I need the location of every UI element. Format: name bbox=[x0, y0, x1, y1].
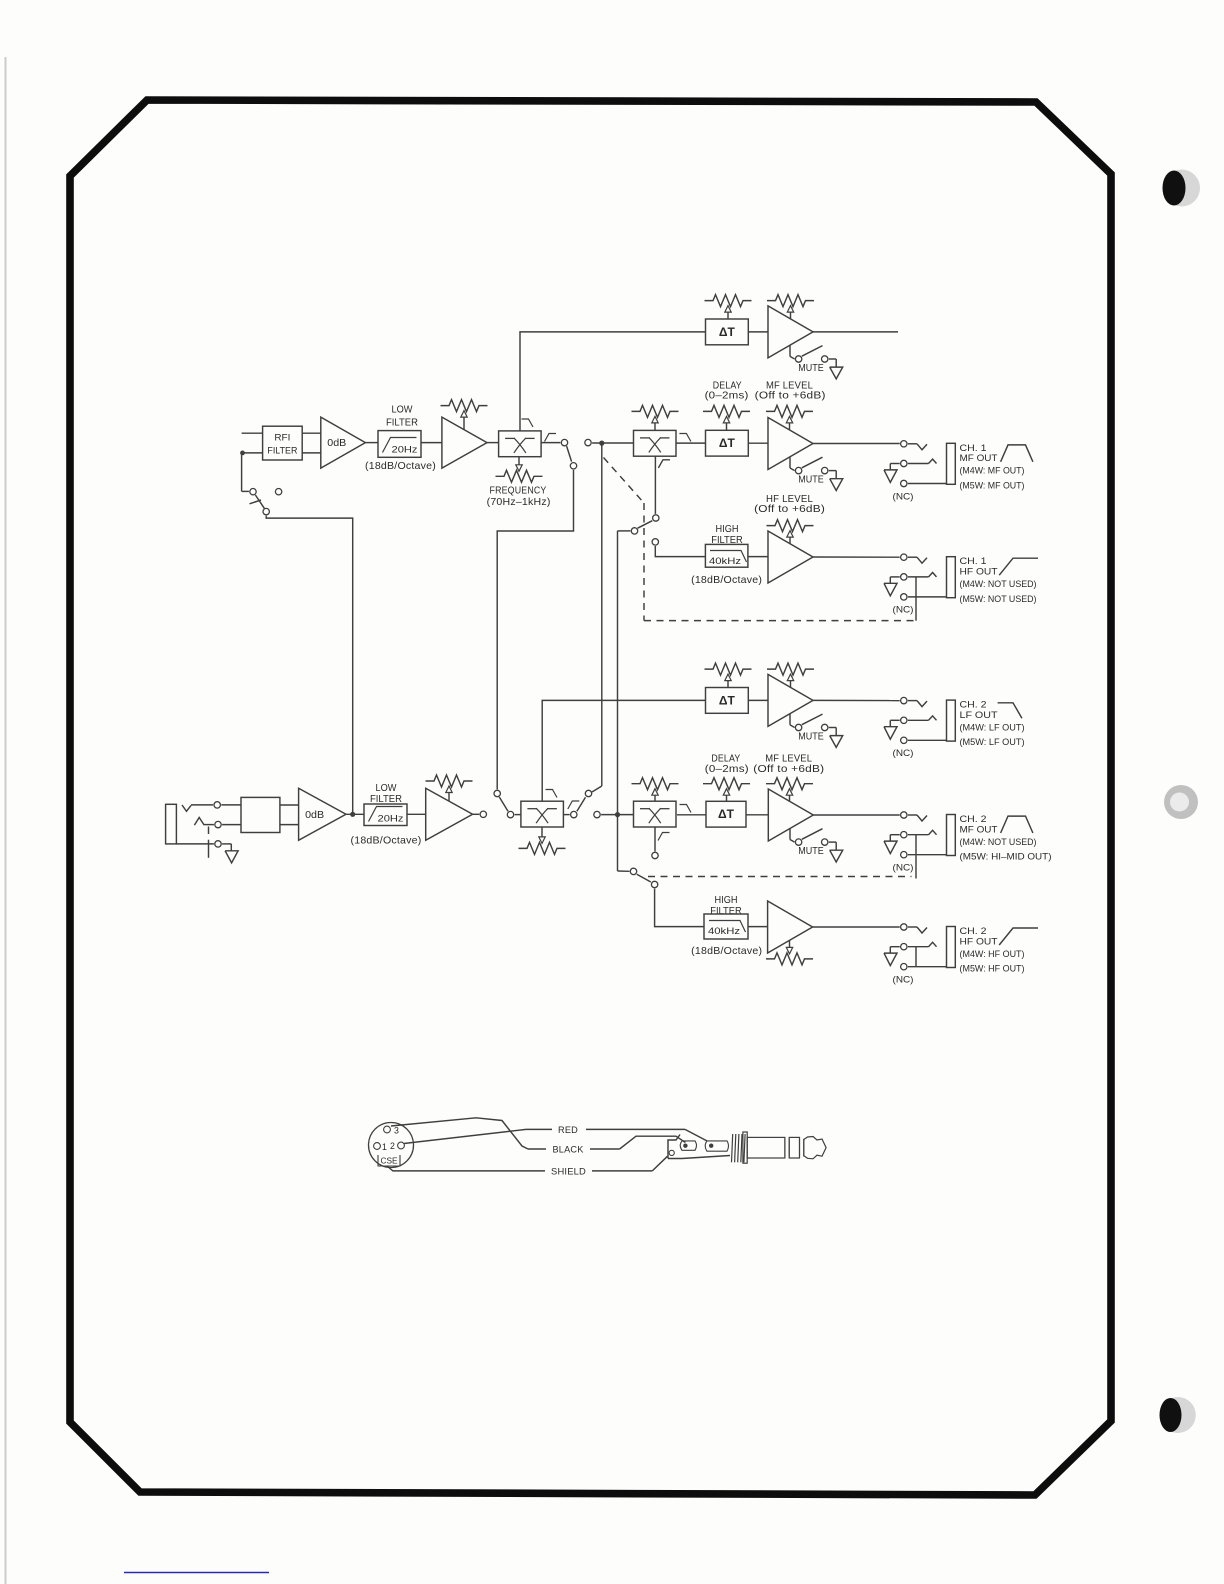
svg-text:CH. 2: CH. 2 bbox=[960, 700, 987, 711]
wire ch1 crossover LF out up to delay row bbox=[520, 332, 706, 431]
svg-text:0dB: 0dB bbox=[305, 810, 324, 821]
block RFI filter ch2 bbox=[241, 797, 280, 832]
wire ch1 aux input to ch2 junction bbox=[266, 516, 353, 815]
svg-text:(70Hz–1kHz): (70Hz–1kHz) bbox=[487, 497, 551, 508]
svg-text:(M5W: HI–MID OUT): (M5W: HI–MID OUT) bbox=[960, 852, 1052, 863]
wire ch1 HF output bbox=[813, 556, 900, 558]
pot ch2 LF delay bbox=[705, 663, 752, 687]
svg-text:RED: RED bbox=[558, 1125, 578, 1136]
pot ch1 MF crossover trim bbox=[632, 405, 679, 430]
switch MUTE ch2 MF bbox=[790, 828, 843, 862]
svg-text:(0–2ms): (0–2ms) bbox=[705, 391, 749, 402]
wire M5W link ch1 to ch2 input bbox=[497, 470, 573, 790]
TRS strain relief coil bbox=[732, 1134, 746, 1162]
svg-text:0dB: 0dB bbox=[327, 438, 346, 449]
svg-text:BLACK: BLACK bbox=[553, 1144, 584, 1155]
label HIGH FILTER ch1 bbox=[711, 524, 743, 546]
TRS flange bbox=[743, 1132, 747, 1163]
block HIGH FILTER 40kHz ch2 bbox=[704, 914, 748, 939]
svg-text:LF OUT: LF OUT bbox=[960, 710, 998, 721]
switch MUTE ch1 LF bbox=[790, 345, 843, 379]
wire ch2 LF out up to delay row bbox=[542, 700, 705, 801]
wire ch2 HF output bbox=[813, 926, 900, 928]
svg-text:(18dB/Octave): (18dB/Octave) bbox=[365, 461, 436, 472]
slope mark lowpass ch1 crossover bbox=[522, 419, 534, 427]
XLR case terminal bbox=[378, 1155, 400, 1166]
svg-text:40kHz: 40kHz bbox=[708, 926, 740, 937]
block HIGH FILTER 40kHz ch1 bbox=[705, 544, 748, 567]
svg-text:LOW: LOW bbox=[392, 405, 414, 416]
svg-text:(NC): (NC) bbox=[893, 975, 914, 986]
connector CH.2 LF OUT bbox=[884, 697, 1025, 759]
TRS barrel bbox=[747, 1137, 785, 1158]
wire RFI to 0dB amp ch1 bbox=[302, 433, 321, 453]
crossover filter ch1 (variable) bbox=[499, 431, 541, 457]
connector CH.2 MF OUT bbox=[884, 812, 1052, 879]
svg-text:CH. 2: CH. 2 bbox=[960, 926, 987, 937]
svg-text:(NC): (NC) bbox=[893, 748, 914, 759]
XLR pin 3 bbox=[384, 1126, 399, 1136]
svg-text:20Hz: 20Hz bbox=[392, 445, 418, 456]
crossover filter ch2 MF bbox=[634, 801, 677, 827]
pot ch2 HF level bbox=[766, 940, 813, 965]
op-amp ch2 input buffer bbox=[426, 788, 473, 840]
TRS tip bbox=[804, 1137, 826, 1159]
svg-text:RFI: RFI bbox=[274, 433, 290, 443]
wire dashed M4W boundary ch1 bbox=[604, 458, 917, 621]
svg-text:MUTE: MUTE bbox=[798, 731, 824, 742]
svg-text:ΔT: ΔT bbox=[719, 438, 735, 450]
wire ch2 MF box HF out down bbox=[654, 827, 656, 851]
XLR pin 1 bbox=[374, 1142, 387, 1152]
pot ch1 MF delay bbox=[703, 405, 750, 430]
switch ch2 crossover input bbox=[480, 790, 514, 818]
border frame octagon bbox=[70, 100, 1111, 1495]
wire ch1 LF output bbox=[813, 331, 898, 333]
svg-text:ΔT: ΔT bbox=[719, 695, 735, 707]
wire switch to crossover ch2 bbox=[515, 814, 521, 816]
connector TRS plug body bbox=[668, 1135, 730, 1159]
wire delay to amp ch1 LF bbox=[748, 331, 768, 333]
wire amp out junction ch2 bbox=[346, 812, 364, 817]
connector CH.1 HF OUT bbox=[884, 554, 1038, 621]
switch ch1 input select bbox=[242, 453, 282, 515]
connector CH.1 MF OUT bbox=[884, 441, 1033, 503]
wire delay to amp ch1 MF bbox=[748, 442, 768, 444]
connector XLR shell bbox=[369, 1123, 414, 1168]
TRS tip groove bbox=[800, 1139, 804, 1157]
pot ch2 LF level bbox=[767, 663, 814, 688]
svg-text:ΔT: ΔT bbox=[718, 809, 734, 821]
svg-text:(18dB/Octave): (18dB/Octave) bbox=[691, 575, 762, 586]
wire red conductor bbox=[404, 1129, 707, 1143]
wire ch2 MF box to delay bbox=[617, 814, 706, 816]
svg-text:40kHz: 40kHz bbox=[709, 556, 741, 567]
slope mark highpass ch1 crossover bbox=[545, 434, 557, 442]
wire ch2 HF to high filter bbox=[655, 889, 704, 927]
svg-text:(M5W: MF OUT): (M5W: MF OUT) bbox=[960, 480, 1025, 491]
wire ch1 MF box to delay bbox=[676, 442, 706, 444]
svg-text:CH. 1: CH. 1 bbox=[960, 443, 987, 454]
block LOW FILTER 20Hz ch2 bbox=[364, 804, 407, 826]
svg-text:MF OUT: MF OUT bbox=[960, 453, 998, 464]
switch MUTE ch1 MF bbox=[790, 457, 843, 491]
svg-text:(Off to +6dB): (Off to +6dB) bbox=[753, 764, 824, 775]
wire ch1 mid line with junction bbox=[592, 441, 633, 446]
svg-text:CH. 1: CH. 1 bbox=[960, 556, 987, 567]
pot ch1 input amp bbox=[441, 400, 488, 430]
connector ch2 input jack bbox=[166, 802, 241, 858]
svg-text:(M5W: HF OUT): (M5W: HF OUT) bbox=[960, 964, 1025, 975]
op-amp ch1 HF bbox=[768, 531, 813, 583]
svg-text:HF OUT: HF OUT bbox=[960, 567, 998, 578]
slope mark highpass ch1 MF box bbox=[658, 460, 670, 468]
svg-text:LOW: LOW bbox=[376, 783, 398, 794]
delay block ch1 LF bbox=[706, 319, 749, 345]
svg-text:1: 1 bbox=[382, 1142, 387, 1152]
svg-text:(18dB/Octave): (18dB/Octave) bbox=[691, 946, 762, 957]
svg-text:HF OUT: HF OUT bbox=[960, 936, 998, 947]
wire high filter to amp ch1 HF bbox=[748, 556, 768, 558]
svg-text:FILTER: FILTER bbox=[267, 446, 297, 456]
pot FREQUENCY ch1 bbox=[496, 457, 543, 483]
pot ch2 crossover frequency bbox=[519, 827, 566, 854]
wire ch1 MF output bbox=[813, 443, 900, 445]
svg-text:(18dB/Octave): (18dB/Octave) bbox=[351, 835, 422, 846]
svg-text:HIGH: HIGH bbox=[716, 524, 739, 535]
pot ch2 MF delay bbox=[703, 778, 750, 802]
svg-text:SHIELD: SHIELD bbox=[551, 1166, 586, 1177]
crossover filter ch1 MF bbox=[634, 430, 677, 456]
wire black conductor bbox=[391, 1118, 685, 1149]
svg-text:CH. 2: CH. 2 bbox=[960, 814, 987, 825]
wire 0dB amp to low filter ch1 bbox=[365, 442, 378, 444]
svg-text:MUTE: MUTE bbox=[798, 475, 824, 486]
wire crossover out ch1 bbox=[541, 442, 560, 444]
wire amp to crossover ch1 bbox=[487, 442, 499, 444]
op-amp ch2 MF bbox=[768, 789, 813, 841]
svg-text:(M4W: NOT USED): (M4W: NOT USED) bbox=[960, 837, 1037, 848]
XLR pin 2 bbox=[390, 1141, 404, 1151]
svg-text:ΔT: ΔT bbox=[719, 327, 735, 339]
wire ch2 MF output bbox=[813, 814, 899, 816]
TRS ring groove bbox=[785, 1139, 789, 1157]
ground ch2 input bbox=[225, 851, 238, 863]
wire low filter to amp ch2 bbox=[407, 813, 426, 815]
pot ch1 LF delay bbox=[705, 295, 752, 319]
op-amp 0dB ch1 bbox=[321, 417, 366, 468]
wire delay to amp ch2 LF bbox=[748, 699, 768, 701]
svg-text:(M4W: MF OUT): (M4W: MF OUT) bbox=[960, 466, 1025, 477]
footer link underline bbox=[124, 1572, 269, 1574]
svg-text:MUTE: MUTE bbox=[798, 846, 824, 857]
wire delay to amp ch2 MF bbox=[746, 814, 768, 816]
wire ch1 input cold bbox=[240, 451, 263, 456]
pot ch1 HF level bbox=[767, 520, 814, 544]
pot ch2 MF crossover trim bbox=[632, 778, 679, 802]
wire shield conductor bbox=[387, 1156, 667, 1171]
wire ch2 mid line with junction bbox=[601, 814, 633, 816]
wire ch2 LF output bbox=[813, 699, 900, 701]
slope mark highpass ch1 HF tap bbox=[658, 460, 670, 468]
pot ch2 input amp bbox=[426, 775, 473, 801]
svg-text:(NC): (NC) bbox=[893, 491, 914, 502]
pot ch2 MF level bbox=[766, 778, 813, 802]
delay block ch2 LF bbox=[706, 688, 749, 714]
crossover filter ch2 (variable) bbox=[521, 801, 564, 827]
scan page edge shading left bbox=[5, 57, 7, 1584]
switch MUTE ch2 LF bbox=[790, 714, 843, 748]
wire dashed M4W boundary ch2 bbox=[648, 876, 912, 878]
label HIGH FILTER ch2 bbox=[710, 895, 742, 917]
TRS ring bbox=[789, 1137, 799, 1158]
wire vertical ch1-ch2 mono link bbox=[592, 443, 602, 792]
svg-text:3: 3 bbox=[394, 1126, 399, 1136]
punch hole middle bbox=[1164, 785, 1198, 819]
op-amp 0dB ch2 bbox=[299, 788, 346, 840]
block LOW FILTER 20Hz ch1 bbox=[378, 405, 421, 458]
delay block ch2 MF bbox=[706, 801, 746, 827]
wire low filter to amp ch1 bbox=[421, 442, 442, 444]
svg-text:(NC): (NC) bbox=[893, 605, 914, 616]
svg-text:(Off to +6dB): (Off to +6dB) bbox=[755, 391, 826, 402]
slope mark lowpass ch1 MF box bbox=[679, 434, 691, 442]
svg-text:MUTE: MUTE bbox=[798, 363, 824, 374]
svg-text:(M5W: NOT USED): (M5W: NOT USED) bbox=[960, 594, 1037, 605]
block RFI FILTER ch1 bbox=[263, 426, 303, 460]
switch ch1 band mode bbox=[561, 439, 591, 469]
svg-text:(NC): (NC) bbox=[893, 863, 914, 874]
wire RFI to amp ch2 bbox=[280, 805, 299, 825]
switch ch2 HF select bbox=[630, 852, 658, 887]
svg-text:MF OUT: MF OUT bbox=[960, 824, 998, 835]
op-amp ch1 MF bbox=[768, 418, 813, 470]
svg-text:(Off to +6dB): (Off to +6dB) bbox=[754, 504, 825, 515]
op-amp ch1 input buffer bbox=[442, 417, 487, 468]
switch ch2 band mode bbox=[571, 790, 601, 818]
wire crossover out ch2 bbox=[564, 814, 570, 816]
svg-text:HIGH: HIGH bbox=[715, 895, 738, 906]
pot ch1 LF level bbox=[767, 295, 814, 320]
wire ch1 MF box HF out down bbox=[654, 456, 656, 514]
svg-text:20Hz: 20Hz bbox=[378, 814, 404, 825]
wire high filter to amp ch2 HF bbox=[748, 926, 768, 928]
svg-text:(M4W: HF OUT): (M4W: HF OUT) bbox=[960, 949, 1025, 960]
slope mark lowpass ch2 crossover bbox=[546, 790, 558, 798]
pot ch1 MF level bbox=[766, 405, 813, 430]
op-amp ch2 HF bbox=[768, 901, 813, 953]
op-amp ch2 LF bbox=[768, 674, 813, 726]
svg-text:2: 2 bbox=[390, 1141, 395, 1151]
punch hole bottom bbox=[1160, 1397, 1196, 1433]
svg-text:FILTER: FILTER bbox=[386, 418, 418, 429]
delay block ch1 MF bbox=[706, 430, 749, 456]
wire ch1 HF select to ch2 vertical bbox=[615, 531, 631, 871]
wire amp to switch ch2 bbox=[473, 813, 480, 815]
op-amp ch1 LF bbox=[768, 306, 813, 358]
connector CH.2 HF OUT bbox=[884, 924, 1038, 986]
punch hole top bbox=[1163, 170, 1201, 207]
svg-text:(M4W: LF OUT): (M4W: LF OUT) bbox=[960, 723, 1025, 734]
svg-text:(M4W: NOT USED): (M4W: NOT USED) bbox=[960, 579, 1037, 590]
svg-text:(0–2ms): (0–2ms) bbox=[705, 764, 749, 775]
wire ch1 HF to high filter bbox=[655, 546, 705, 557]
slope mark lowpass ch2 MF box bbox=[680, 805, 692, 813]
svg-text:(M5W: LF OUT): (M5W: LF OUT) bbox=[960, 737, 1025, 748]
label LOW FILTER ch2 bbox=[370, 783, 402, 805]
svg-text:FILTER: FILTER bbox=[710, 906, 742, 917]
svg-text:CSE: CSE bbox=[381, 1157, 399, 1166]
switch ch1 HF select bbox=[631, 515, 659, 545]
slope mark highpass ch2 crossover bbox=[568, 801, 580, 809]
wire ch1 input hot bbox=[242, 432, 263, 434]
slope mark highpass ch2 MF box bbox=[658, 833, 670, 841]
svg-text:FREQUENCY: FREQUENCY bbox=[490, 486, 547, 497]
